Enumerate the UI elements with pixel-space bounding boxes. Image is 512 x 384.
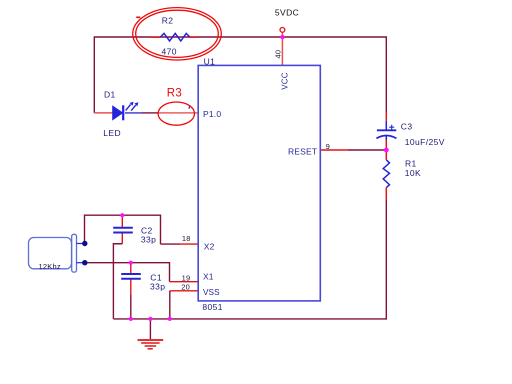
svg-text:470: 470 [162,47,177,57]
capacitor C1 [121,274,141,279]
annotation inner ellipse around R2 [136,10,219,57]
svg-text:9: 9 [326,142,330,151]
svg-text:X2: X2 [204,241,215,251]
svg-text:40: 40 [273,50,282,59]
crystal X 12Khz [29,234,88,272]
svg-text:VCC: VCC [281,72,290,90]
resistor R2 [160,33,190,41]
wire C1 bottom lead [130,279,132,295]
R2 pin stubs [150,36,197,38]
junction node C1 top [129,261,133,265]
junction node VSS bottom [168,317,172,321]
junction node C2 top [120,213,124,217]
junction node VCC rail [280,35,284,39]
svg-text:20: 20 [181,282,190,291]
wire VCC pin 40 lead [281,32,283,65]
wire bottom rail [113,318,387,320]
power terminal 5VDC [280,28,285,33]
wire C3 bottom lead [385,135,387,140]
wire X1 pin 19 stub [170,281,199,283]
wire C2 bottom lead [121,233,123,244]
ground symbol [138,340,164,349]
wire R1 top lead [385,150,387,160]
svg-text:RESET: RESET [288,147,317,157]
wire crystal bottom row [85,263,170,282]
IC U1 8051 body [198,65,320,301]
svg-text:D1: D1 [104,89,116,99]
wire LED cathode stub [125,112,142,114]
wire C1 top lead [130,263,132,274]
svg-text:10K: 10K [405,168,421,178]
wire LED row to P1.0 pin [158,112,198,114]
wire crystal top up and over [85,215,161,244]
LED D1 [113,102,139,121]
svg-text:33p: 33p [141,234,156,244]
annotation outer ellipse around R2 [133,8,222,60]
wire VSS pin 20 stub [170,290,198,292]
annotation small blue tick in R3 ellipse [189,105,191,108]
svg-text:R3: R3 [167,87,182,99]
capacitor C3 [376,125,396,139]
wire C2 corner to left drop [113,244,122,319]
wire X2 pin 18 run [161,243,181,245]
svg-text:8051: 8051 [202,302,223,312]
wire VSS down to bottom rail [169,291,171,319]
junction node ground [148,317,152,321]
svg-text:12Khz: 12Khz [39,262,61,271]
wire RESET to C3/R1 node [348,149,386,151]
wire top rail [94,36,386,38]
svg-text:18: 18 [182,234,191,243]
wire C2 top lead [121,215,123,227]
svg-text:C3: C3 [401,121,413,131]
wire left vertical [93,36,95,113]
annotation red tick [136,16,140,18]
wire X2 pin 18 stub [180,243,198,245]
svg-text:R1: R1 [405,158,417,168]
junction node C1 bottom [129,317,133,321]
svg-text:19: 19 [182,273,191,282]
svg-text:5VDC: 5VDC [275,8,299,18]
wire right vertical to C3 [385,36,387,112]
capacitor C2 [113,228,133,233]
resistor R1 [383,160,389,188]
svg-text:X1: X1 [203,272,214,282]
wire LED row middle [142,112,158,114]
wire ground stem [149,319,151,339]
svg-text:LED: LED [103,128,121,138]
annotation ellipse R3 [158,102,194,125]
junction node C3/R1/RESET [384,148,389,153]
svg-text:33p: 33p [150,281,165,291]
wire R1 bottom lead [385,188,387,200]
wire LED anode stub [94,112,112,114]
wire C3 top lead blue [385,121,387,130]
wire C1 down to bottom rail [130,295,132,319]
svg-text:U1: U1 [204,56,216,66]
svg-text:VSS: VSS [203,288,220,297]
svg-text:R2: R2 [162,15,174,25]
svg-text:P1.0: P1.0 [203,109,221,119]
wire R1 down to bottom rail [385,200,387,319]
svg-text:10uF/25V: 10uF/25V [405,137,445,147]
wire RESET pin 9 stub [320,149,348,151]
